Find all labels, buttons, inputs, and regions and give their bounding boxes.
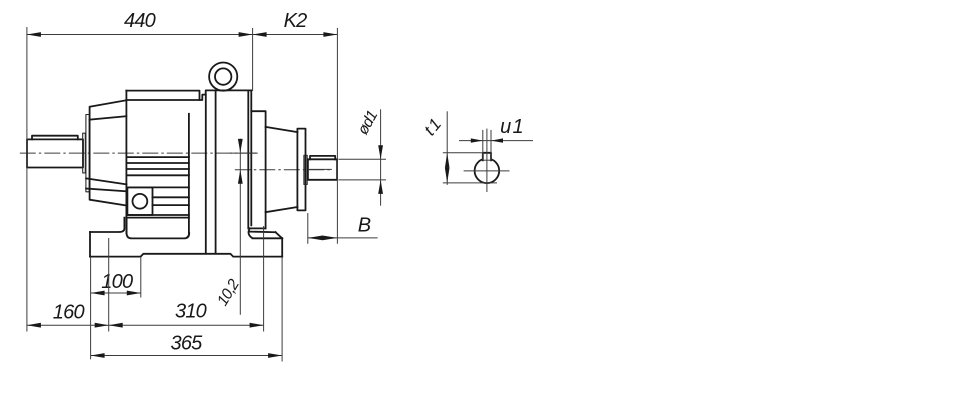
- gear housing right edge outer: [247, 90, 249, 228]
- eye bolt inner: [215, 68, 231, 84]
- svg-text:100: 100: [101, 271, 133, 293]
- output shaft: [308, 159, 337, 180]
- dim 440 line: [27, 34, 253, 36]
- housing top notch: [200, 90, 252, 100]
- t1 dim line: [446, 111, 448, 185]
- t1 ext bottom: [443, 182, 497, 184]
- cooling fins: [126, 156, 188, 158]
- gear foot chamfer: [276, 232, 283, 238]
- ext 100 right: [140, 257, 142, 298]
- ext base left: [90, 257, 92, 359]
- bell inner line bottom 1: [86, 178, 126, 184]
- input shaft collar: [83, 133, 86, 173]
- motor housing inner vertical: [188, 114, 190, 233]
- od1 ext bottom: [338, 179, 386, 181]
- svg-text:440: 440: [124, 10, 156, 32]
- motor rear bell: [90, 100, 127, 205]
- gear foot hook: [249, 228, 252, 237]
- gear housing bottom: [250, 227, 266, 229]
- svg-text:160: 160: [53, 302, 85, 324]
- flange column right: [215, 90, 217, 252]
- flange column left: [205, 95, 207, 253]
- base right edge: [281, 238, 283, 256]
- t1 text: [420, 113, 446, 139]
- dim 160-310 line: [27, 324, 264, 326]
- base bottom: [90, 254, 282, 257]
- output cone bottom: [266, 207, 298, 212]
- gear housing right edge inner: [250, 90, 252, 225]
- ext base right: [281, 257, 283, 361]
- t1 ext top: [443, 152, 484, 154]
- section keyway floor: [483, 159, 491, 161]
- base top right: [253, 237, 283, 239]
- terminal box: [127, 187, 152, 215]
- offset stub top: [230, 152, 258, 154]
- offset text 10,2: [214, 276, 243, 309]
- u1 ext left: [482, 130, 484, 161]
- motor foot front: [90, 218, 124, 232]
- svg-text:u1: u1: [500, 116, 525, 138]
- bell inner line bottom 2: [86, 189, 126, 192]
- od1 ext top: [338, 158, 386, 160]
- output flange plate: [251, 111, 265, 228]
- section centerline h: [464, 170, 510, 172]
- B ext left: [307, 213, 309, 244]
- u1 dim line: [459, 140, 533, 142]
- output cone top: [266, 127, 298, 132]
- ext gear foot hole: [263, 226, 265, 332]
- centerline output axis: [235, 169, 332, 171]
- section centerline v: [486, 129, 488, 192]
- eye bolt outer: [209, 63, 237, 91]
- dim K2 line: [253, 34, 338, 36]
- section shaft circle: [475, 159, 500, 184]
- svg-text:310: 310: [175, 301, 207, 323]
- svg-text:K2: K2: [284, 10, 308, 32]
- input shaft key: [32, 136, 78, 140]
- od1 text: [354, 108, 381, 138]
- section keyway: [483, 153, 491, 161]
- bell inner line top: [90, 116, 127, 120]
- motor housing left edge: [125, 91, 127, 234]
- svg-text:365: 365: [171, 333, 204, 355]
- output shaft key: [310, 156, 335, 159]
- plug circle: [133, 194, 148, 209]
- extension line left: [26, 27, 28, 332]
- dim 365 line: [91, 355, 283, 357]
- svg-text:B: B: [358, 215, 371, 237]
- input shaft: [27, 139, 83, 167]
- base left edge: [89, 232, 91, 257]
- dim 100 line: [91, 292, 141, 294]
- offset dim line: [239, 139, 241, 315]
- bell rim: [86, 115, 89, 192]
- gear foot top: [250, 231, 275, 234]
- extension line mid: [252, 28, 254, 91]
- u1 ext right: [490, 130, 492, 161]
- motor housing top band: [126, 91, 199, 100]
- od1 dim line: [380, 109, 382, 205]
- motor foot arch: [127, 218, 190, 239]
- centerline input axis: [20, 152, 258, 154]
- output collar: [304, 155, 307, 184]
- bearing housing: [297, 129, 305, 211]
- ext foot hole: [108, 238, 110, 332]
- B dim line: [308, 237, 378, 239]
- output shaft mid line: [308, 168, 332, 170]
- extension line right: [336, 28, 338, 244]
